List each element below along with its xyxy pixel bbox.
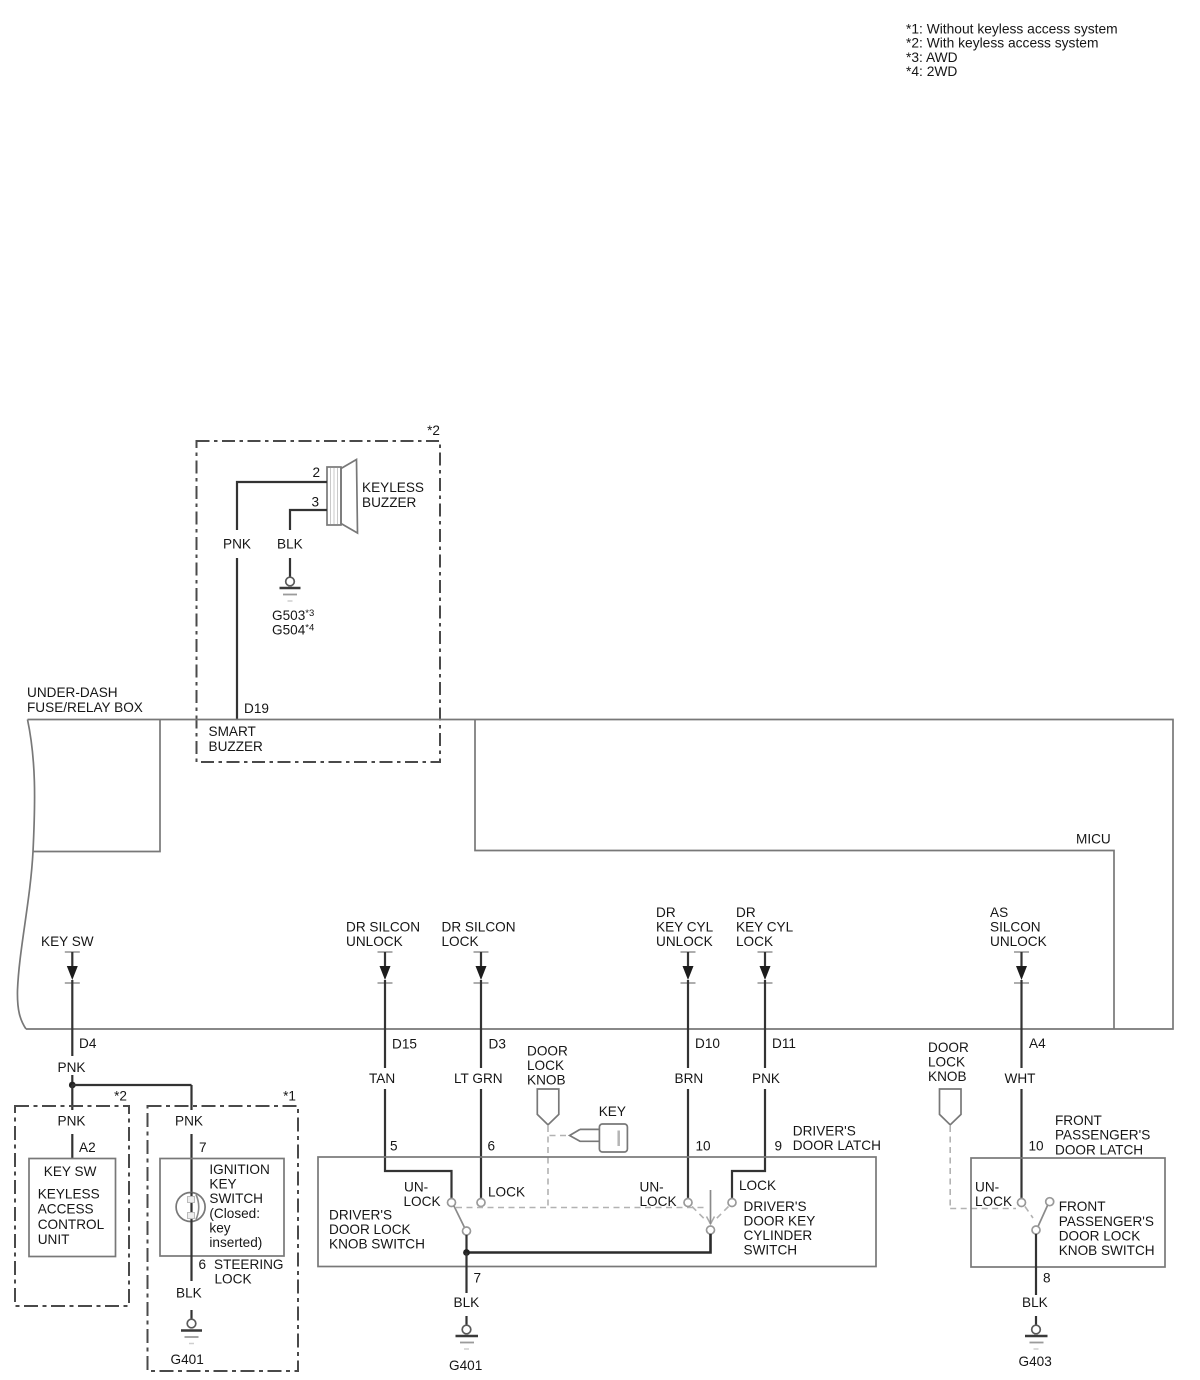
- linkage arrow at passenger pole: [1025, 1207, 1033, 1219]
- linkage dashed horizontal (driver latch): [456, 1207, 706, 1209]
- svg-text:D4: D4: [79, 1036, 97, 1051]
- svg-text:BLK: BLK: [277, 537, 303, 552]
- svg-text:DOOR LOCK: DOOR LOCK: [1059, 1229, 1141, 1244]
- svg-text:7: 7: [199, 1140, 207, 1155]
- svg-text:PNK: PNK: [223, 537, 251, 552]
- ignition key switch enclosure *1: [148, 1089, 299, 1372]
- svg-text:10: 10: [1029, 1139, 1045, 1154]
- svg-text:KEY SW: KEY SW: [41, 934, 94, 949]
- svg-text:DRIVER'S: DRIVER'S: [744, 1199, 807, 1214]
- key cylinder pole contact: [707, 1226, 715, 1234]
- svg-text:LOCK: LOCK: [527, 1058, 564, 1073]
- svg-text:KEY: KEY: [209, 1177, 236, 1192]
- front passenger's door latch label: [1055, 1113, 1150, 1157]
- svg-text:*2: With keyless access system: *2: With keyless access system: [906, 36, 1098, 51]
- ground G401 driver's door: [449, 1325, 482, 1373]
- svg-text:BUZZER: BUZZER: [362, 495, 417, 510]
- svg-text:*1: *1: [283, 1089, 296, 1104]
- MICU terminal AS SILCON UNLOCK: [990, 905, 1047, 1029]
- svg-text:DRIVER'S: DRIVER'S: [329, 1208, 392, 1223]
- svg-text:LOCK: LOCK: [442, 934, 479, 949]
- junction node pin7: [463, 1249, 470, 1256]
- svg-text:*3: AWD: *3: AWD: [906, 50, 958, 65]
- svg-text:A4: A4: [1029, 1036, 1046, 1051]
- key cylinder lock contact: [728, 1199, 736, 1207]
- svg-text:KNOB SWITCH: KNOB SWITCH: [329, 1237, 425, 1252]
- svg-text:2: 2: [312, 465, 320, 480]
- svg-text:PNK: PNK: [752, 1071, 780, 1086]
- svg-text:UN-: UN-: [404, 1180, 428, 1195]
- svg-text:G403: G403: [1019, 1354, 1052, 1369]
- passenger knob switch unlock contact: [1018, 1199, 1026, 1207]
- svg-text:9: 9: [775, 1139, 783, 1154]
- passenger knob switch arm: [1038, 1206, 1048, 1227]
- ignition key switch box: [160, 1159, 284, 1257]
- linkage knob dashed (passenger): [950, 1126, 1016, 1209]
- keyless buzzer enclosure box *2: [197, 423, 441, 762]
- svg-text:3: 3: [311, 495, 319, 510]
- svg-text:FRONT: FRONT: [1059, 1199, 1106, 1214]
- svg-text:*1: Without keyless access sys: *1: Without keyless access system: [906, 22, 1118, 37]
- svg-text:UNDER-DASH: UNDER-DASH: [27, 685, 118, 700]
- svg-text:7: 7: [474, 1271, 482, 1286]
- svg-text:6: 6: [199, 1257, 207, 1272]
- svg-text:ACCESS: ACCESS: [38, 1202, 94, 1217]
- wire buzzer pin2 PNK down to D19: [223, 482, 327, 719]
- svg-text:DR SILCON: DR SILCON: [346, 920, 420, 935]
- svg-text:PNK: PNK: [58, 1114, 86, 1129]
- svg-text:PASSENGER'S: PASSENGER'S: [1059, 1214, 1154, 1229]
- linkage arrow at key cylinder pole: [692, 1207, 729, 1225]
- key cylinder unlock contact: [684, 1199, 692, 1207]
- svg-text:8: 8: [1043, 1271, 1051, 1286]
- svg-text:PNK: PNK: [175, 1114, 203, 1129]
- svg-text:BRN: BRN: [675, 1071, 704, 1086]
- front passenger's door latch box: [971, 1158, 1165, 1267]
- linkage key to knob dashed: [549, 1135, 566, 1137]
- wire knob switch pole to junction: [465, 1235, 467, 1253]
- passenger knob switch pole contact: [1032, 1226, 1040, 1234]
- svg-text:KNOB: KNOB: [527, 1073, 566, 1088]
- svg-text:A2: A2: [79, 1140, 96, 1155]
- svg-text:UNLOCK: UNLOCK: [656, 934, 713, 949]
- svg-text:WHT: WHT: [1005, 1071, 1036, 1086]
- wire D4 PNK: [58, 1029, 97, 1085]
- front passenger's door lock knob switch label: [1059, 1199, 1155, 1258]
- svg-text:G401: G401: [171, 1352, 204, 1367]
- svg-text:LOCK: LOCK: [928, 1055, 965, 1070]
- key cylinder switch UN-LOCK label: [640, 1180, 677, 1209]
- svg-text:*2: *2: [427, 423, 440, 438]
- svg-text:IGNITION: IGNITION: [209, 1162, 269, 1177]
- svg-text:UNIT: UNIT: [38, 1232, 70, 1247]
- svg-text:SWITCH: SWITCH: [744, 1243, 798, 1258]
- driver's door latch label: [793, 1124, 881, 1154]
- svg-text:5: 5: [390, 1139, 398, 1154]
- wire ignition switch to ground BLK: [176, 1222, 284, 1320]
- wire PNK into keyless access control unit: [58, 1085, 96, 1159]
- svg-text:KNOB: KNOB: [928, 1069, 967, 1084]
- svg-text:DOOR LATCH: DOOR LATCH: [793, 1138, 881, 1153]
- keyless buzzer: [327, 460, 424, 534]
- svg-text:PASSENGER'S: PASSENGER'S: [1055, 1128, 1150, 1143]
- svg-text:DOOR: DOOR: [527, 1044, 568, 1059]
- svg-text:UNLOCK: UNLOCK: [346, 934, 403, 949]
- under-dash fuse/relay box label: [27, 685, 143, 715]
- svg-text:10: 10: [696, 1139, 712, 1154]
- knob switch unlock contact: [448, 1199, 456, 1207]
- svg-text:D3: D3: [489, 1037, 506, 1052]
- svg-text:LOCK: LOCK: [488, 1185, 525, 1200]
- knob switch UN-LOCK label: [404, 1180, 441, 1209]
- svg-text:BLK: BLK: [176, 1286, 202, 1301]
- svg-text:CYLINDER: CYLINDER: [744, 1228, 813, 1243]
- svg-text:KEY CYL: KEY CYL: [656, 920, 714, 935]
- svg-text:BLK: BLK: [1022, 1295, 1048, 1310]
- wire D10 BRN: [675, 1029, 721, 1199]
- junction node PNK split: [69, 1082, 76, 1089]
- svg-text:SWITCH: SWITCH: [209, 1191, 263, 1206]
- under-dash fuse/relay box outline: [17, 720, 1173, 1030]
- svg-text:LOCK: LOCK: [736, 934, 773, 949]
- svg-text:KEYLESS: KEYLESS: [362, 480, 424, 495]
- svg-text:UNLOCK: UNLOCK: [990, 934, 1047, 949]
- door lock knob icon (driver): [537, 1089, 559, 1125]
- svg-text:UN-: UN-: [975, 1180, 999, 1195]
- svg-text:AS: AS: [990, 905, 1008, 920]
- wire buzzer pin3 BLK to ground: [277, 510, 327, 577]
- svg-text:D19: D19: [244, 701, 269, 716]
- svg-text:TAN: TAN: [369, 1071, 395, 1086]
- knob switch lock contact: [477, 1199, 485, 1207]
- driver's door latch box: [318, 1157, 876, 1267]
- svg-text:LOCK: LOCK: [739, 1178, 776, 1193]
- MICU terminal DR KEY CYL LOCK: [736, 905, 794, 1029]
- ignition key switch symbol: [176, 1193, 205, 1222]
- wire pin 8 BLK to ground: [1022, 1234, 1051, 1325]
- MICU terminal DR SILCON UNLOCK: [346, 920, 420, 1030]
- svg-text:SILCON: SILCON: [990, 920, 1041, 935]
- note legend: [906, 22, 1118, 80]
- linkage knob vertical dashed (driver): [547, 1126, 549, 1206]
- svg-text:DR: DR: [736, 905, 756, 920]
- svg-text:SMART: SMART: [209, 724, 256, 739]
- MICU terminal DR SILCON LOCK: [442, 920, 516, 1030]
- svg-text:STEERING: STEERING: [214, 1257, 284, 1272]
- ground G403: [1019, 1325, 1052, 1369]
- ground G503/G504: [272, 577, 314, 637]
- wire junction to ignition branch: [72, 1084, 191, 1086]
- svg-text:LOCK: LOCK: [640, 1194, 677, 1209]
- keyless access control unit enclosure *2: [15, 1089, 129, 1307]
- svg-text:FRONT: FRONT: [1055, 1113, 1102, 1128]
- svg-text:LOCK: LOCK: [975, 1194, 1012, 1209]
- MICU terminal KEY SW: [41, 934, 94, 1029]
- svg-text:DOOR LOCK: DOOR LOCK: [329, 1222, 411, 1237]
- svg-text:D10: D10: [695, 1036, 720, 1051]
- svg-text:*4: 2WD: *4: 2WD: [906, 64, 957, 79]
- svg-text:G401: G401: [449, 1358, 482, 1373]
- smart buzzer label: [209, 724, 264, 754]
- passenger knob switch UN-LOCK label: [975, 1180, 1012, 1209]
- driver's door key cylinder switch label: [744, 1199, 816, 1258]
- svg-text:UN-: UN-: [640, 1180, 664, 1195]
- MICU terminal DR KEY CYL UNLOCK: [656, 905, 714, 1029]
- wire D3 LT GRN: [454, 1029, 506, 1199]
- svg-text:CONTROL: CONTROL: [38, 1217, 105, 1232]
- svg-text:DR SILCON: DR SILCON: [442, 920, 516, 935]
- svg-text:D11: D11: [772, 1036, 796, 1051]
- svg-text:DOOR KEY: DOOR KEY: [744, 1214, 816, 1229]
- knob switch pole contact: [463, 1227, 471, 1235]
- door lock knob icon (passenger): [940, 1089, 962, 1125]
- svg-text:6: 6: [488, 1139, 496, 1154]
- svg-text:key: key: [209, 1220, 230, 1235]
- svg-text:BUZZER: BUZZER: [209, 739, 264, 754]
- svg-text:LT GRN: LT GRN: [454, 1071, 503, 1086]
- key cylinder switch arm: [710, 1190, 712, 1224]
- svg-text:inserted): inserted): [209, 1235, 262, 1250]
- svg-text:DRIVER'S: DRIVER'S: [793, 1124, 856, 1139]
- svg-text:PNK: PNK: [58, 1060, 86, 1075]
- svg-text:BLK: BLK: [454, 1295, 480, 1310]
- svg-text:KEYLESS: KEYLESS: [38, 1187, 100, 1202]
- key icon: [570, 1124, 628, 1152]
- svg-text:D15: D15: [392, 1037, 417, 1052]
- driver's door lock knob switch label: [329, 1208, 425, 1252]
- wire PNK into ignition key switch: [175, 1085, 207, 1193]
- svg-text:DOOR: DOOR: [928, 1040, 969, 1055]
- keyless access control unit KEY SW box: [29, 1159, 116, 1257]
- wire D11 PNK: [732, 1029, 796, 1199]
- door lock knob label (driver): [527, 1044, 568, 1088]
- knob switch arm: [454, 1206, 465, 1228]
- svg-text:LOCK: LOCK: [404, 1194, 441, 1209]
- passenger knob switch open contact: [1046, 1198, 1054, 1206]
- svg-text:KEY CYL: KEY CYL: [736, 920, 794, 935]
- svg-text:DOOR LATCH: DOOR LATCH: [1055, 1142, 1143, 1157]
- svg-text:LOCK: LOCK: [215, 1272, 252, 1287]
- svg-text:*2: *2: [114, 1089, 127, 1104]
- door lock knob label (passenger): [928, 1040, 969, 1084]
- svg-text:(Closed:: (Closed:: [209, 1206, 260, 1221]
- svg-text:KEY SW: KEY SW: [44, 1164, 97, 1179]
- svg-text:MICU: MICU: [1076, 832, 1111, 847]
- svg-text:KNOB SWITCH: KNOB SWITCH: [1059, 1243, 1155, 1258]
- svg-text:DR: DR: [656, 905, 676, 920]
- svg-text:KEY: KEY: [599, 1104, 626, 1119]
- wire D15 TAN: [369, 1029, 452, 1199]
- ground G401 ignition: [171, 1319, 204, 1367]
- MICU internal box: [475, 720, 1114, 1030]
- wire key cylinder pole to junction: [467, 1234, 711, 1253]
- svg-text:FUSE/RELAY BOX: FUSE/RELAY BOX: [27, 700, 143, 715]
- wire A4 WHT: [1005, 1029, 1047, 1199]
- wire pin 7 BLK to ground: [454, 1253, 482, 1325]
